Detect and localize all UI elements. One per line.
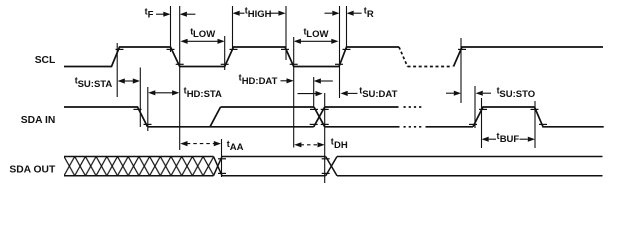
wire SDA IN rails after X1 bbox=[325, 106, 399, 108]
tick SDA IN fall1 top bbox=[134, 108, 142, 110]
arrow tR right bbox=[325, 12, 333, 14]
tick SDA OUT X2 bottom-left bbox=[322, 172, 330, 174]
tick SCL rise3 top bbox=[343, 48, 351, 50]
tick SDA OUT X2 top-left bbox=[322, 158, 330, 160]
extension line tAA right x=221.5 bbox=[221, 139, 223, 177]
tick SDA IN fall2 top bbox=[531, 108, 539, 110]
arrow tHIGH left head bbox=[233, 11, 240, 16]
svg-text:SDA OUT: SDA OUT bbox=[9, 165, 56, 176]
arrow tF left bbox=[180, 12, 187, 17]
svg-text:BUF: BUF bbox=[500, 134, 520, 145]
tick SCL rise1 top bbox=[116, 48, 124, 50]
wire SDA IN high rail bbox=[221, 106, 315, 108]
arrow tHIGH right head bbox=[270, 12, 279, 14]
arrow tSU:STO left bbox=[476, 91, 483, 96]
arrow tF right bbox=[156, 13, 164, 15]
arrow tSU:STO right-pointing pre bbox=[446, 92, 455, 94]
svg-text:LOW: LOW bbox=[306, 29, 328, 40]
svg-text:LOW: LOW bbox=[193, 29, 215, 40]
extension line at SCL rise4 x=461 bbox=[460, 38, 462, 103]
extension line tBUF right x=535 bbox=[534, 101, 536, 148]
wire SCL dashed fall bbox=[399, 47, 408, 67]
svg-text:SU:STA: SU:STA bbox=[78, 79, 113, 90]
extension line at SCL rise1 x=117.2 bbox=[116, 43, 118, 97]
tick SCL fall1 top bbox=[167, 48, 175, 50]
svg-text:F: F bbox=[148, 10, 154, 21]
svg-text:DH: DH bbox=[334, 140, 348, 151]
wire SDA IN rise1 bbox=[210, 107, 221, 127]
arrow tBUF bbox=[482, 137, 489, 142]
svg-text:AA: AA bbox=[230, 142, 244, 153]
extension line at SCL fall1 start x=170.5 bbox=[170, 6, 172, 52]
extension line at SDA rise2 x=475 bbox=[474, 86, 476, 128]
svg-text:SU:DAT: SU:DAT bbox=[362, 89, 397, 100]
tick SCL fall2 top bbox=[281, 48, 289, 50]
svg-text:SDA IN: SDA IN bbox=[21, 115, 56, 126]
arrow tLOW first bbox=[187, 40, 218, 42]
tick SDA IN X1 bottom-right bbox=[321, 123, 329, 125]
tick SDA IN X1 top-left bbox=[310, 108, 318, 110]
extension line at SCL fall2 start x=286 bbox=[285, 6, 287, 60]
extension line at SCL rise3 x=339.5 bbox=[339, 6, 341, 98]
extension line at SDA X1 start x=313.7 bbox=[313, 77, 315, 108]
svg-text:HIGH: HIGH bbox=[248, 9, 272, 20]
wire SDA IN low rail bbox=[148, 126, 314, 128]
tick SDA IN X1 top-right bbox=[321, 108, 329, 110]
arrow tR left bbox=[347, 11, 354, 16]
node SDA OUT crossover X2 bbox=[326, 157, 337, 176]
node SDA IN crossover X1 bbox=[314, 107, 325, 127]
arrow tSU:DAT right-pointing pre bbox=[298, 93, 317, 95]
extension line at SDA X1 end x=324.7 bbox=[324, 93, 326, 183]
svg-text:SU:STO: SU:STO bbox=[499, 89, 535, 100]
tick SCL rise3 bottom bbox=[335, 63, 343, 65]
extension line at SDA fall1 start x=140.3 bbox=[139, 68, 141, 128]
tick SDA IN X1 bottom-left bbox=[310, 123, 318, 125]
wire SDA IN low solid resume bbox=[426, 126, 474, 128]
tick SCL rise2 top bbox=[230, 48, 238, 50]
arrow tHD:DAT left-pointing pair bbox=[314, 78, 321, 83]
tick SDA OUT X1 bottom-right bbox=[218, 172, 226, 174]
wire SDA OUT rails right bbox=[337, 156, 603, 158]
extension line at SCL fall2 end x=293.7 bbox=[293, 37, 295, 148]
node SDA OUT crossover X1 bbox=[214, 157, 223, 176]
tick SDA IN rise2 bottom bbox=[469, 123, 477, 125]
tick SDA IN fall2 bottom bbox=[539, 123, 547, 125]
wire SCL dashed low bbox=[408, 66, 453, 68]
arrow tHD:DAT right bbox=[281, 80, 288, 82]
tick SDA OUT X1 top-right bbox=[218, 158, 226, 160]
tick SDA IN fall1 bottom bbox=[144, 123, 152, 125]
wire SDA IN start high bbox=[64, 107, 148, 127]
extension line at SCL rise2 x=224.7 bbox=[224, 36, 226, 70]
arrow tHD:STA bbox=[155, 92, 173, 94]
tick SCL rise4 top bbox=[458, 48, 466, 50]
wire SDA IN dotted rails bbox=[404, 106, 422, 108]
tick SCL rise2 bottom bbox=[221, 63, 229, 65]
wire SDA OUT rails middle bbox=[222, 156, 326, 158]
extension line at SCL rise3 top x=346.5 bbox=[346, 6, 348, 50]
svg-text:HD:STA: HD:STA bbox=[187, 89, 222, 100]
svg-text:SCL: SCL bbox=[35, 55, 56, 66]
arrow tDH dashed bbox=[301, 144, 319, 146]
wire SDA IN final pulse bbox=[473, 107, 604, 127]
arrow tAA dashed bbox=[187, 143, 215, 145]
extension line at SCL rise2 top x=232.5 bbox=[232, 6, 234, 48]
extension line tBUF left x=481.5 bbox=[481, 98, 483, 148]
tick SDA IN rise2 top bbox=[479, 108, 487, 110]
wire SCL waveform solid bbox=[64, 47, 399, 67]
tick SCL fall2 bottom bbox=[290, 63, 298, 65]
extension line at SDA fall1 end x=147.8 bbox=[147, 87, 149, 131]
arrow tSU:STA bbox=[124, 80, 135, 82]
wire SCL final rise and high bbox=[454, 47, 604, 67]
tick SCL fall1 bottom bbox=[176, 63, 184, 65]
SDA OUT crosshatch band bbox=[64, 157, 214, 176]
arrow tSU:DAT left bbox=[341, 91, 348, 96]
arrow tLOW second bbox=[300, 40, 332, 42]
svg-text:R: R bbox=[367, 9, 374, 20]
svg-text:HD:DAT: HD:DAT bbox=[242, 76, 278, 87]
extension line at SCL fall1 end x=179.7 bbox=[179, 6, 181, 150]
